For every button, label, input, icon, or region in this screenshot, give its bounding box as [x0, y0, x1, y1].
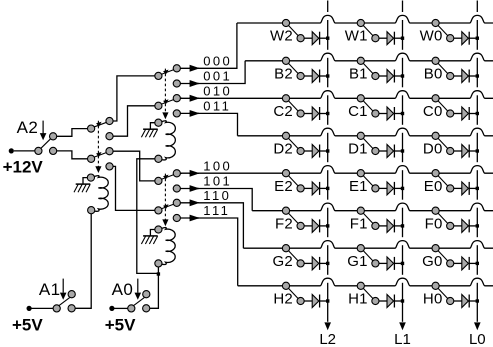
wire: row bus H with hops over column lines: [238, 278, 493, 286]
linkage (dashed) relay A0b: [162, 174, 168, 227]
relay A0a contact set 2 (common + two throws): [155, 95, 181, 117]
diode for W0: [462, 32, 478, 45]
svg-text:A2: A2: [17, 118, 39, 137]
ground for relay A0a coil: [141, 123, 157, 138]
wire: column line L2: [327, 1, 329, 322]
svg-text:E2: E2: [274, 178, 293, 195]
decoder output 011 wire with arrow: [180, 110, 237, 136]
switch B2 (node on row B, lever, contact): [282, 57, 312, 79]
switch A0 (pushbutton): [114, 291, 150, 312]
svg-text:F2: F2: [275, 215, 293, 232]
diode for E1: [387, 182, 403, 195]
wire: row bus W with hops over column lines: [237, 15, 493, 23]
svg-text:E0: E0: [424, 178, 443, 195]
switch B0 (node on row B, lever, contact): [432, 57, 462, 79]
switch F1 (node on row F, lever, contact): [357, 207, 387, 229]
relay A1 coil: [87, 174, 108, 214]
relay A1 contact set 2 (common + two throws): [88, 148, 114, 170]
svg-text:100: 100: [203, 159, 232, 174]
junction C1 to column: [401, 112, 404, 115]
wire: row bus E with hops over column lines: [180, 166, 493, 174]
switch G2 (node on row G, lever, contact): [282, 245, 312, 267]
ground for relay A1 coil: [74, 178, 90, 193]
svg-text:L2: L2: [319, 331, 336, 347]
svg-text:+12V: +12V: [3, 157, 44, 176]
svg-text:C0: C0: [423, 103, 443, 120]
svg-text:F1: F1: [350, 215, 368, 232]
svg-text:E1: E1: [349, 178, 368, 195]
switch H1 (node on row H, lever, contact): [357, 282, 387, 304]
wire relay A0b coil down to junction: [157, 267, 159, 274]
svg-text:C2: C2: [273, 103, 293, 120]
svg-text:L0: L0: [469, 331, 486, 347]
svg-text:A1: A1: [39, 280, 61, 299]
decoder output 110 wire with arrow: [180, 199, 243, 248]
decoder output 100 wire with arrow: [180, 170, 199, 177]
linkage (dashed) relay A0a: [162, 69, 168, 120]
wire relay A1 throw 2b to relay A0b contact 2 common: [113, 166, 155, 210]
junction G2 to column: [326, 262, 329, 265]
junction F0 to column: [476, 224, 479, 227]
svg-text:F0: F0: [425, 215, 443, 232]
relay A0b contact set 1 (common + two throws): [155, 170, 181, 192]
arrow at bottom of column L1: [399, 322, 406, 330]
diode for W2: [312, 32, 328, 45]
svg-text:111: 111: [203, 203, 230, 218]
wire relay A1 coil to switch A1: [75, 214, 91, 308]
switch W0 (node on row W, lever, contact): [432, 19, 462, 41]
junction H2 to column: [326, 299, 329, 302]
wire: column line L1: [402, 1, 404, 322]
switch D0 (node on row D, lever, contact): [432, 132, 462, 154]
switch D1 (node on row D, lever, contact): [357, 132, 387, 154]
switch D2 (node on row D, lever, contact): [282, 132, 312, 154]
svg-text:G1: G1: [347, 253, 367, 270]
relay A0a coil: [155, 119, 176, 162]
switch E1 (node on row E, lever, contact): [357, 170, 387, 192]
switch W2 (node on row W, lever, contact): [282, 19, 312, 41]
svg-text:W0: W0: [420, 28, 443, 45]
relay A0b contact set 2 (common + two throws): [155, 199, 181, 221]
wire: row bus F with hops over column lines: [252, 203, 493, 211]
junction F1 to column: [401, 224, 404, 227]
svg-text:000: 000: [203, 54, 232, 69]
svg-text:H2: H2: [273, 290, 293, 307]
arrow at bottom of column L0: [474, 322, 481, 330]
junction B0 to column: [476, 74, 479, 77]
switch F2 (node on row F, lever, contact): [282, 207, 312, 229]
diode for H2: [312, 295, 328, 308]
junction D1 to column: [401, 149, 404, 152]
terminal +12V: [9, 148, 14, 153]
relay A1 contact set 1 (common + two throws): [88, 117, 114, 139]
svg-text:101: 101: [203, 174, 232, 189]
svg-text:H1: H1: [348, 290, 368, 307]
diode for F1: [387, 219, 403, 232]
diode for H0: [462, 295, 478, 308]
junction E2 to column: [326, 187, 329, 190]
diode for C1: [387, 107, 403, 120]
junction C2 to column: [326, 112, 329, 115]
wire junction down to switch A0: [150, 273, 159, 308]
wire: row bus C with hops over column lines: [180, 91, 493, 99]
junction G0 to column: [476, 262, 479, 265]
svg-text:D1: D1: [348, 140, 368, 157]
diode for F2: [312, 219, 328, 232]
switch E0 (node on row E, lever, contact): [432, 170, 462, 192]
diode for D0: [462, 145, 478, 158]
svg-text:L1: L1: [394, 331, 411, 347]
wire: row bus G with hops over column lines: [243, 241, 493, 249]
diode for G0: [462, 257, 478, 270]
svg-text:W2: W2: [270, 28, 293, 45]
diode for F0: [462, 219, 478, 232]
decoder output 000 wire with arrow: [180, 23, 237, 72]
relay A0b coil: [155, 226, 175, 267]
switch A1 (pushbutton): [31, 291, 75, 312]
wire: row bus D with hops over column lines: [238, 128, 493, 136]
diode for G1: [387, 257, 403, 270]
switch C2 (node on row C, lever, contact): [282, 95, 312, 117]
switch W1 (node on row W, lever, contact): [357, 19, 387, 41]
decoder output 010 wire with arrow: [180, 95, 199, 102]
junction G1 to column: [401, 262, 404, 265]
wire: column line L0: [476, 1, 478, 322]
svg-text:011: 011: [203, 99, 231, 114]
svg-text:D0: D0: [423, 140, 443, 157]
diode for C2: [312, 107, 328, 120]
svg-text:D2: D2: [273, 140, 293, 157]
svg-text:G2: G2: [272, 253, 292, 270]
switch C1 (node on row C, lever, contact): [357, 95, 387, 117]
svg-text:110: 110: [203, 188, 231, 203]
diode for E0: [462, 182, 478, 195]
junction W2 to column: [326, 37, 329, 40]
diode for B1: [387, 70, 403, 83]
svg-text:G0: G0: [422, 253, 442, 270]
arrow at bottom of column L2: [324, 322, 331, 330]
switch H2 (node on row H, lever, contact): [282, 282, 312, 304]
svg-text:001: 001: [203, 69, 232, 84]
wire A2 lower throw to relay-A1 contact 2 common: [57, 151, 88, 159]
switch F0 (node on row F, lever, contact): [432, 207, 462, 229]
decoder output 101 wire with arrow: [180, 185, 252, 211]
junction H1 to column: [401, 299, 404, 302]
wire relay A0a coil down to common feed junction: [137, 159, 159, 274]
junction C0 to column: [476, 112, 479, 115]
junction F2 to column: [326, 224, 329, 227]
wire relay A1 throw 2a to relay A0b contact 1 common: [113, 151, 155, 181]
diode for D1: [387, 145, 403, 158]
svg-text:+5V: +5V: [105, 316, 136, 335]
junction B1 to column: [401, 74, 404, 77]
junction D2 to column: [326, 149, 329, 152]
diode for E2: [312, 182, 328, 195]
diode for B0: [462, 70, 478, 83]
junction H0 to column: [476, 299, 479, 302]
relay A0a contact set 1 (common + two throws): [155, 65, 181, 87]
diode for H1: [387, 295, 403, 308]
junction E0 to column: [476, 187, 479, 190]
switch B1 (node on row B, lever, contact): [357, 57, 387, 79]
node: A0 coils junction: [157, 272, 160, 275]
linkage (dashed) relay A1: [95, 121, 101, 173]
wire relay A1 throw 1b to relay A0a contact 2 common: [113, 106, 155, 136]
switch C0 (node on row C, lever, contact): [432, 95, 462, 117]
switch E2 (node on row E, lever, contact): [282, 170, 312, 192]
junction E1 to column: [401, 187, 404, 190]
svg-text:C1: C1: [348, 103, 368, 120]
junction W1 to column: [401, 37, 404, 40]
svg-text:A0: A0: [112, 280, 134, 299]
decoder output 001 wire with arrow: [180, 61, 245, 87]
svg-text:B2: B2: [274, 65, 293, 82]
terminal +5V for A1: [27, 306, 32, 311]
terminal +5V for A0: [109, 306, 114, 311]
junction B2 to column: [326, 74, 329, 77]
diode for C0: [462, 107, 478, 120]
switch G1 (node on row G, lever, contact): [357, 245, 387, 267]
junction W0 to column: [476, 37, 479, 40]
wire A2 upper throw to relay-A1 contact 1 common: [57, 129, 88, 137]
decoder output 111 wire with arrow: [180, 215, 237, 286]
svg-text:+5V: +5V: [12, 316, 43, 335]
svg-text:H0: H0: [423, 290, 443, 307]
svg-text:B0: B0: [424, 65, 443, 82]
switch A2 (SPDT selecting upper/lower subtree): [14, 133, 57, 155]
svg-text:010: 010: [203, 83, 232, 98]
svg-text:W1: W1: [345, 28, 368, 45]
switch G0 (node on row G, lever, contact): [432, 245, 462, 267]
svg-text:B1: B1: [349, 65, 368, 82]
ground for relay A0b coil: [141, 230, 157, 245]
wire: row bus B with hops over column lines: [245, 53, 493, 61]
junction D0 to column: [476, 149, 479, 152]
wire relay A1 throw 1a up to relay A0a contact 1 common: [113, 76, 155, 121]
diode for W1: [387, 32, 403, 45]
diode for G2: [312, 257, 328, 270]
diode for D2: [312, 145, 328, 158]
switch H0 (node on row H, lever, contact): [432, 282, 462, 304]
diode for B2: [312, 70, 328, 83]
